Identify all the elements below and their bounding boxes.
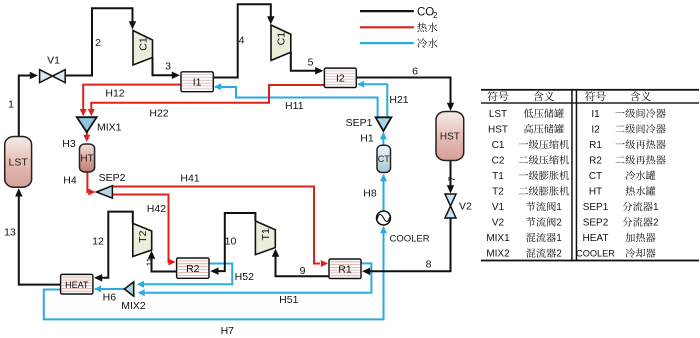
wire H52 cold water R2 to MIX2 (140, 264, 232, 285)
arrowhead H12 into MIX1 (80, 109, 87, 116)
wire 8 V2 to R1 (369, 218, 451, 271)
wire H21 cold water SEP1 to I2 (358, 84, 387, 117)
wire H7 cold water HEAT to COOLER (44, 227, 384, 319)
svg-text:MIX1: MIX1 (97, 122, 122, 134)
table row V1 meaning (526, 202, 535, 211)
wire H12 hot water I1 to MIX1 (83, 85, 181, 110)
wire H6 cold water MIX2 to HEAT (95, 288, 124, 290)
svg-text:T1: T1 (260, 228, 272, 240)
svg-text:SEP1: SEP1 (346, 117, 373, 129)
arrowhead wire 2 into C1 (129, 21, 136, 29)
svg-text:1: 1 (556, 233, 561, 244)
arrowhead H51 into MIX2 (138, 289, 145, 296)
table row R2 meaning (616, 156, 625, 163)
svg-text:H6: H6 (103, 292, 117, 304)
arrowhead wire 11 into T2 (148, 251, 155, 259)
table header rule (481, 102, 699, 103)
svg-text:SEP1: SEP1 (583, 202, 609, 213)
svg-text:HT: HT (80, 154, 93, 165)
svg-text:12: 12 (92, 236, 104, 248)
table row V2 meaning (526, 217, 535, 226)
wire 5 C2 to I2 (291, 52, 316, 71)
svg-text:CT: CT (589, 171, 602, 182)
wire H51 cold water R1 to MIX2 (141, 263, 371, 292)
intercooler I1 (181, 72, 213, 92)
svg-text:CO: CO (417, 6, 434, 18)
svg-text:4: 4 (239, 35, 245, 47)
splitter SEP2 (96, 186, 112, 199)
table header symbol right (585, 91, 595, 101)
svg-text:COOLER: COOLER (576, 249, 615, 259)
svg-text:2: 2 (433, 11, 438, 20)
wire 11 R2 to T2 (152, 257, 177, 272)
svg-text:H52: H52 (235, 271, 254, 283)
svg-text:8: 8 (426, 259, 432, 271)
svg-text:2: 2 (556, 249, 561, 260)
svg-text:13: 13 (4, 227, 16, 239)
svg-text:HEAT: HEAT (65, 280, 89, 290)
tank LST low pressure storage (5, 137, 32, 188)
table row C1 meaning (519, 143, 528, 144)
arrowhead H1 into SEP1 (380, 132, 387, 139)
svg-text:2: 2 (556, 218, 561, 229)
svg-text:T1: T1 (492, 171, 504, 182)
table row COOLER meaning (626, 248, 636, 257)
svg-text:2: 2 (95, 37, 101, 49)
arrowhead H6 into HEAT (94, 286, 101, 293)
svg-text:HST: HST (440, 132, 460, 143)
svg-text:H1: H1 (360, 133, 374, 145)
svg-text:3: 3 (165, 61, 171, 73)
arrowhead wire 3 into I1 (172, 72, 180, 80)
svg-text:I2: I2 (336, 73, 345, 85)
svg-text:I1: I1 (591, 109, 600, 120)
table row SEP2 meaning (623, 217, 633, 226)
svg-text:H22: H22 (149, 108, 168, 120)
svg-text:H42: H42 (147, 203, 166, 215)
svg-text:7: 7 (447, 176, 457, 181)
table row LST meaning (524, 109, 534, 118)
compressor C2 (labelled C1 in drawing) (271, 25, 291, 60)
table double vertical divider (571, 89, 573, 262)
wire 13 HEAT to LST (19, 195, 61, 285)
arrowhead H42 into R2 (168, 259, 175, 266)
table row R1 meaning (615, 143, 624, 144)
svg-text:H11: H11 (285, 100, 304, 112)
reheater R2 (177, 258, 209, 278)
valve V1 (40, 70, 66, 83)
svg-text:MIX1: MIX1 (486, 233, 510, 244)
svg-text:11: 11 (145, 257, 155, 266)
compressor C1 (133, 31, 153, 66)
svg-text:MIX2: MIX2 (121, 300, 146, 312)
table header meaning left (533, 91, 543, 101)
svg-text:C1: C1 (137, 37, 149, 51)
svg-text:5: 5 (308, 57, 314, 69)
legend cold water text (417, 38, 427, 48)
arrowhead wire 10 into R2 (210, 267, 218, 275)
mixer MIX2 (124, 282, 133, 296)
arrowhead wire 12 into HEAT (94, 274, 102, 282)
svg-text:HST: HST (488, 124, 508, 135)
table row C2 meaning (519, 156, 528, 163)
svg-text:9: 9 (300, 265, 306, 277)
table bottom rule (481, 260, 699, 262)
arrowhead wire 9 into T1 (272, 249, 279, 257)
wire H42 hot water SEP2 to R2 (112, 195, 169, 263)
svg-text:V1: V1 (47, 55, 60, 67)
mixer MIX1 (77, 117, 97, 132)
svg-text:C2: C2 (492, 155, 505, 166)
svg-text:H4: H4 (63, 175, 77, 187)
intercooler I2 (324, 68, 356, 87)
svg-text:10: 10 (225, 236, 237, 248)
turbine T1 (255, 221, 275, 255)
arrowhead wire 5 into I2 (315, 67, 323, 75)
svg-text:SEP2: SEP2 (99, 172, 126, 184)
wire 7 HST to V2 (450, 161, 452, 188)
table row MIX1 meaning (526, 233, 535, 242)
table row HT meaning (626, 186, 635, 195)
wire 2 V1 to C1 (65, 8, 133, 75)
splitter SEP1 (376, 117, 392, 131)
wire 10 T1 to R2 (217, 213, 255, 271)
arrowhead H41 into R1 (321, 260, 328, 267)
arrowhead H52 into MIX2 (137, 281, 144, 288)
legend hot water text (417, 23, 427, 33)
svg-text:V1: V1 (492, 202, 505, 213)
wire H11 cold water SEP1 to I1 (215, 87, 378, 117)
svg-text:2: 2 (653, 218, 658, 229)
wire H3 hot water MIX1 to HT (86, 132, 88, 136)
wire 3 C1 to I1 (153, 58, 174, 76)
tank CT cold water (377, 145, 391, 172)
table row HEAT meaning (625, 233, 634, 242)
wire H41 hot water SEP2 to R1 (112, 187, 320, 264)
wire 9 R1 to T1 (276, 255, 330, 276)
arrowhead H11 into I1 (214, 83, 221, 90)
arrowhead wire 8 into R1 (362, 268, 370, 276)
arrowhead H3 into HT (83, 135, 90, 142)
wire 1 LST to V1 (19, 76, 31, 137)
svg-text:R2: R2 (186, 263, 200, 275)
svg-text:T2: T2 (492, 186, 504, 197)
table row T1 meaning (519, 174, 528, 175)
svg-text:HT: HT (589, 186, 602, 197)
turbine T2 (133, 223, 152, 256)
svg-text:CT: CT (378, 154, 390, 164)
table row T2 meaning (519, 187, 528, 194)
svg-text:H7: H7 (221, 325, 235, 337)
table row I2 meaning (616, 125, 625, 132)
wire H4 hot water HT to SEP2 (86, 172, 89, 192)
svg-text:COOLER: COOLER (390, 234, 430, 245)
reheater R1 (329, 259, 361, 279)
legend hot water line (360, 26, 414, 28)
svg-text:R1: R1 (338, 264, 352, 276)
svg-text:V2: V2 (459, 201, 472, 213)
table top rule (481, 89, 699, 91)
legend CO2 line (360, 10, 414, 12)
table header symbol left (488, 91, 498, 101)
wire 12 T2 to HEAT (100, 212, 133, 278)
arrowhead wire 13 into LST (15, 188, 23, 196)
svg-text:HEAT: HEAT (583, 233, 609, 244)
arrowhead wire 6 into HST (447, 103, 454, 111)
arrowhead H7 into COOLER (380, 226, 387, 233)
arrowhead H4 into SEP2 (88, 189, 95, 196)
wire H1 cold water CT to SEP1 (382, 133, 384, 146)
svg-text:C1: C1 (276, 32, 288, 46)
svg-text:H51: H51 (279, 294, 298, 306)
tank HT hot water (80, 144, 95, 172)
wire 6 I2 to HST (356, 78, 450, 105)
wire 4 I1 to C2 (213, 4, 270, 77)
svg-text:6: 6 (412, 66, 418, 78)
table header meaning right (630, 91, 640, 101)
tank HST high pressure storage (436, 112, 464, 161)
arrowhead wire 4 into C2 (267, 16, 275, 24)
svg-text:H3: H3 (62, 138, 76, 150)
svg-text:H12: H12 (105, 88, 124, 100)
svg-text:R2: R2 (589, 155, 602, 166)
wire H8 cold water COOLER to CT (383, 175, 385, 211)
heater HEAT (61, 274, 93, 294)
table row SEP1 meaning (623, 202, 633, 211)
svg-text:C1: C1 (492, 140, 505, 151)
arrowhead H8 into CT (380, 174, 387, 181)
table row MIX2 meaning (526, 248, 535, 257)
svg-text:H41: H41 (180, 173, 199, 185)
svg-text:1: 1 (556, 202, 561, 213)
svg-text:H8: H8 (363, 188, 377, 200)
table row HST meaning (524, 124, 533, 133)
svg-text:I2: I2 (591, 124, 600, 135)
svg-text:1: 1 (653, 202, 658, 213)
arrowhead H21 into I2 (357, 81, 364, 88)
svg-text:LST: LST (9, 157, 29, 169)
cooler COOLER circle (377, 211, 391, 225)
table row I1 meaning (615, 112, 624, 113)
svg-text:R1: R1 (589, 140, 602, 151)
legend cold water line (360, 42, 414, 44)
svg-text:V2: V2 (492, 218, 505, 229)
arrowhead wire 1 into V1 (30, 72, 38, 79)
svg-text:H21: H21 (389, 94, 408, 106)
arrowhead H22 into MIX1 (88, 109, 95, 116)
table row CT meaning (626, 171, 636, 180)
svg-text:LST: LST (489, 109, 507, 120)
svg-text:I1: I1 (193, 77, 202, 89)
svg-text:T2: T2 (137, 230, 149, 242)
wire H22 hot water I2 to MIX1 (91, 85, 324, 110)
svg-text:MIX2: MIX2 (486, 249, 510, 260)
valve V2 (445, 194, 456, 218)
svg-text:SEP2: SEP2 (583, 218, 609, 229)
arrowhead wire 7 into V2 (447, 185, 454, 193)
svg-text:1: 1 (8, 99, 14, 111)
